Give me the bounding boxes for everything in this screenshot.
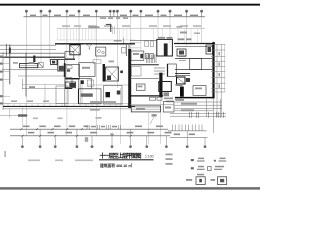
grid vertical lines: [22, 17, 201, 144]
window dim text right: [194, 33, 200, 35]
right dims text b: [181, 109, 194, 111]
left axis line: [2, 52, 4, 110]
right vertical dim stack lines: [217, 44, 221, 117]
tick text row mid: [114, 40, 122, 42]
right unit second top line: [175, 46, 212, 48]
faint marks above row1: [33, 117, 102, 119]
leader diagonal: [150, 117, 154, 125]
left axis bubbles: [0, 56, 3, 105]
core room dark fill: [140, 54, 143, 59]
living room vertical: [44, 84, 46, 103]
left lower line 3: [22, 88, 65, 90]
small text cluster left of D block: [89, 26, 100, 28]
core label text above: [167, 37, 173, 39]
small cabinet box: [122, 48, 127, 54]
right dims text c: [176, 99, 184, 101]
right unit top dark wall: [174, 43, 215, 45]
faint leftover text under plan: [28, 160, 93, 162]
left room vertical b: [25, 53, 27, 97]
bath fixtures dark: [107, 76, 111, 81]
legend row2 text a: [198, 166, 204, 168]
bottom dim text row 1: [23, 126, 163, 128]
bottom band line 3: [3, 108, 131, 110]
core label text: [164, 92, 170, 96]
door arcs upper middle: [84, 44, 94, 50]
band stub vertical: [9, 109, 11, 118]
right unit window box: [193, 86, 206, 96]
legend row2 box symbol: [208, 166, 211, 170]
survey mark near bubbles: [110, 133, 114, 135]
legend row3 caption: [186, 179, 192, 181]
svg-text:建筑面积 468.16 ㎡: 建筑面积 468.16 ㎡: [99, 163, 132, 168]
legend row2 text b: [215, 166, 224, 168]
upper secondary dimension line: [57, 27, 205, 29]
boxes top light line: [87, 84, 131, 86]
bottom sheet border line (inner): [0, 188, 260, 191]
bottom dim line 1 left: [10, 128, 168, 130]
fold mark left margin: [5, 151, 6, 157]
right unit bottom wall: [175, 97, 214, 99]
right row1 tick bundle: [173, 125, 203, 131]
balcony top light line: [130, 104, 163, 106]
svg-text:十一层至上层平面图: 十一层至上层平面图: [100, 152, 142, 160]
right dims horizontals: [170, 102, 226, 116]
small box left of C2604 top: [87, 80, 93, 86]
right core box: [163, 102, 174, 113]
core right room box: [168, 64, 177, 77]
bottom dim line 1 right: [168, 130, 207, 132]
right dims verticals: [207, 99, 221, 133]
top sheet border line: [0, 4, 260, 6]
legend row3 box1: [196, 174, 205, 185]
right unit room box: [190, 58, 202, 69]
right unit corner cluster: [206, 45, 213, 54]
core left-bottom box: [136, 84, 145, 90]
upper small dimension text row above plan: [62, 25, 201, 26]
cluster small boxes: [150, 97, 163, 100]
left room vertical c: [21, 79, 23, 89]
core upper hall line: [130, 39, 157, 41]
svg-text:1:100: 1:100: [145, 155, 154, 159]
small vertical below D cluster: [122, 38, 124, 45]
left unit main dark wall: [0, 56, 65, 58]
bottom dim row1 cluster text: [91, 126, 117, 128]
hatched shaft box: [70, 45, 80, 55]
bottom window band line 1: [3, 102, 131, 104]
unit divider dark bar: [64, 63, 66, 77]
hallway label: [109, 61, 115, 63]
room A box: [66, 64, 80, 78]
left dark post: [33, 56, 35, 63]
small room label left: [13, 62, 18, 64]
left axis ticks: [0, 57, 10, 104]
plan lowest edge segment: [0, 114, 28, 116]
right top leader text: [180, 32, 187, 34]
core mid dark line: [130, 64, 159, 66]
right unit thick interior bar: [180, 87, 184, 97]
mid room box upper: [65, 52, 74, 60]
living room label: [29, 86, 35, 88]
legend row1 line a: [197, 160, 205, 162]
right dim stack outer line: [224, 44, 226, 92]
legend row3 mid text: [211, 179, 216, 181]
core bottom dark wall: [130, 95, 163, 97]
right unit shelf marks: [179, 57, 186, 61]
left unit top line 2: [0, 48, 56, 50]
left fixture box 2: [58, 60, 65, 72]
core left light lines: [130, 43, 141, 48]
lower left small room box: [56, 86, 68, 104]
left unit wall line 3: [0, 52, 65, 54]
bottom axis bubbles: [21, 145, 206, 148]
bottom window band mullions: [8, 103, 128, 106]
bottom sheet border line (outer): [0, 187, 260, 188]
left unit top line 1: [0, 44, 56, 46]
bottom dim row1 tick clusters: [87, 125, 120, 130]
small side room: [65, 78, 72, 89]
kitchen counter light: [93, 60, 101, 64]
D-axis leader hook: [106, 24, 111, 32]
right unit room label: [176, 84, 183, 86]
mid dark wall seg: [65, 58, 75, 60]
lowest edge dark blob: [18, 114, 27, 116]
core lower room box: [132, 67, 142, 77]
bottom dim line 2 right: [170, 137, 208, 139]
right unit thick right wall: [212, 42, 214, 99]
core mid marks: [154, 68, 165, 74]
legend row1 text b: [220, 158, 226, 160]
furniture small boxes: [145, 54, 153, 59]
bedroom box C2604: [79, 89, 102, 104]
right dim stack rungs: [211, 45, 225, 92]
bottom dark wall: [3, 105, 135, 107]
bath X box: [106, 67, 119, 81]
top axis bubble stems: [26, 13, 201, 17]
legend row2 label: [191, 167, 194, 169]
bottom axis bubble stems: [22, 129, 205, 145]
left edge vertical a: [5, 44, 7, 58]
legend row2 line b: [214, 168, 222, 170]
right top tiny text: [177, 26, 183, 28]
dim tick slashes line1: [20, 128, 83, 130]
left edge vertical b with blob: [9, 45, 11, 85]
legend row1 text a: [198, 158, 204, 160]
title underline: [99, 159, 154, 160]
lift hall box: [159, 82, 172, 92]
legend row3 box2: [218, 177, 227, 185]
lower room box: [79, 79, 92, 89]
elevator label: [158, 37, 165, 39]
left inner wall line: [2, 68, 57, 70]
dim tick slashes line2: [21, 135, 131, 137]
upper middle main dark wall: [55, 43, 135, 45]
top dimension text dashes: [30, 15, 198, 19]
bath thick bar: [103, 64, 105, 82]
right unit mid wall lines: [175, 58, 212, 60]
room A bottom dark bar: [66, 78, 80, 80]
right dims text a: [181, 103, 197, 105]
left window bar: [20, 64, 38, 68]
interior dim text left: [90, 109, 100, 111]
top dimension line: [24, 16, 206, 18]
bedroom label left: [29, 62, 35, 64]
legend row1 label: [191, 159, 194, 161]
left lower line 2: [22, 83, 65, 85]
left unit separation vertical: [64, 53, 66, 106]
living room vertical pair: [80, 84, 82, 103]
thick wall bar B: [159, 73, 162, 97]
cluster text rows: [164, 98, 182, 103]
comb bottom line: [57, 39, 135, 41]
legend row2 line a: [197, 168, 205, 170]
lower balcony rect: [131, 106, 160, 112]
legend row1 line b: [219, 160, 227, 162]
overall text left: [85, 137, 88, 142]
kitchen room box: [79, 63, 95, 77]
core bottom label: [152, 114, 157, 116]
side room dark bottom: [65, 87, 72, 89]
facade mullion comb: [58, 28, 198, 43]
D-axis light verticals: [113, 26, 115, 34]
legend note column: [166, 154, 173, 165]
right dims cross ticks: [190, 112, 224, 118]
bottom dim line 2: [10, 135, 170, 137]
stair treads comb: [146, 55, 156, 64]
core room box: [131, 51, 144, 60]
thick wall bar A: [128, 49, 131, 108]
interior dim text band: [90, 101, 116, 103]
right unit heavy bath cluster: [175, 74, 190, 85]
left fixture box 1: [51, 60, 58, 65]
legend row1 mid mark: [214, 160, 216, 162]
stair lower landing line: [130, 77, 159, 79]
bottom dim text row 2: [28, 132, 195, 135]
window sill text dashes: [11, 100, 49, 102]
right dim stack vertical text smudges: [218, 52, 220, 88]
two light closet boxes: [145, 41, 154, 47]
top axis grid bubbles: [25, 10, 203, 13]
left door swing: [38, 63, 43, 68]
right unit box cluster a: [177, 49, 186, 56]
small dark blob right of bath: [120, 71, 123, 74]
dark utility box: [65, 82, 75, 88]
elevator shaft box: [157, 39, 173, 56]
right unit top text row: [178, 38, 192, 40]
left lower line 1: [18, 75, 65, 77]
closet verticals upper middle: [126, 45, 129, 56]
room box right of C2604: [104, 86, 122, 105]
bath room box upper middle: [96, 47, 106, 56]
